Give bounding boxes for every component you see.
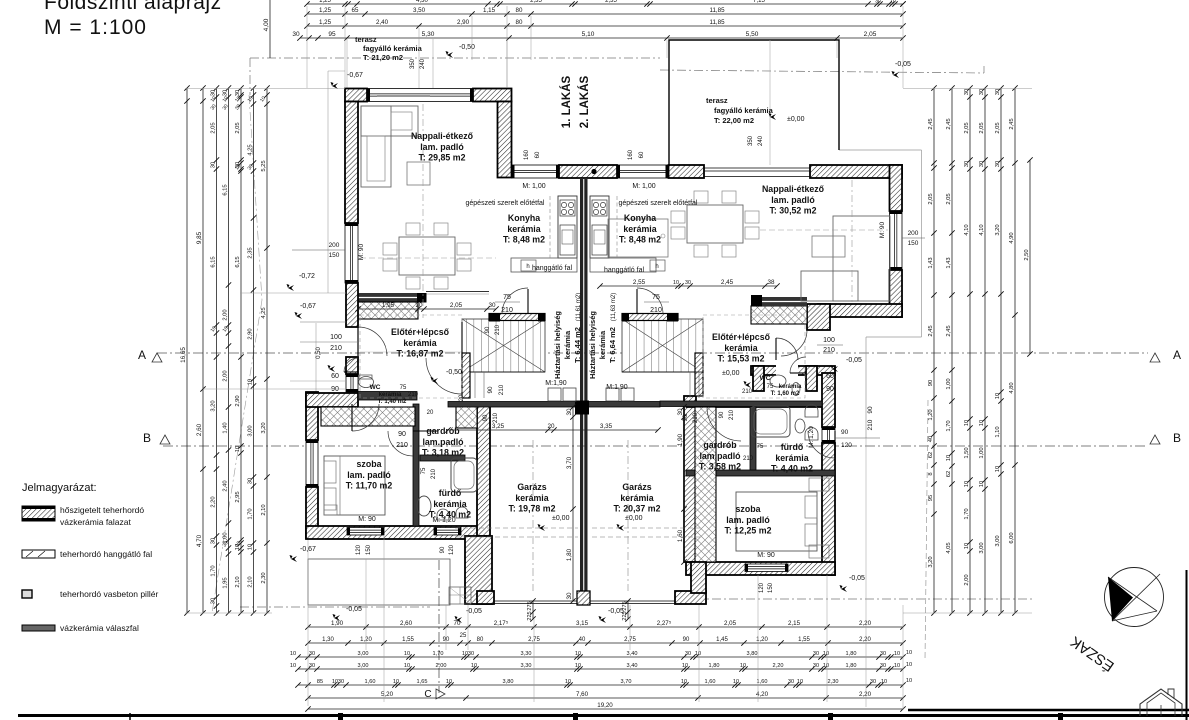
- svg-text:160: 160: [628, 149, 634, 160]
- svg-text:Előtér+lépcső: Előtér+lépcső: [712, 332, 771, 342]
- svg-text:2,45: 2,45: [928, 325, 934, 336]
- svg-text:5,25: 5,25: [261, 160, 267, 171]
- wall U1 garage west upper: [477, 404, 490, 536]
- svg-text:B: B: [143, 431, 151, 445]
- wall right of stairs U2: [695, 353, 703, 396]
- svg-text:10: 10: [894, 651, 900, 657]
- stairs U1 top wall: [489, 314, 545, 321]
- legend item 1 symbol: [22, 506, 55, 521]
- svg-text:20: 20: [427, 410, 434, 416]
- svg-text:1,60: 1,60: [677, 529, 684, 542]
- svg-text:275: 275: [622, 601, 628, 610]
- svg-text:90: 90: [719, 411, 725, 418]
- right dim col 4: [982, 85, 987, 615]
- svg-text:30: 30: [309, 651, 315, 657]
- svg-text:120: 120: [841, 442, 852, 449]
- svg-text:30: 30: [813, 663, 819, 669]
- svg-text:62: 62: [928, 452, 934, 458]
- svg-text:2,00: 2,00: [223, 309, 229, 320]
- svg-text:8: 8: [928, 472, 934, 475]
- north arrow circle: [1105, 568, 1164, 627]
- door U1 living arc: [426, 358, 462, 394]
- svg-text:3,70: 3,70: [566, 456, 573, 469]
- svg-text:fürdő: fürdő: [439, 488, 462, 498]
- svg-text:3,25: 3,25: [492, 423, 505, 430]
- svg-text:60: 60: [826, 373, 834, 380]
- svg-text:210: 210: [431, 468, 437, 479]
- eaves west vertical: [327, 71, 329, 293]
- terrace 2 centerline: [769, 40, 771, 165]
- svg-text:Előtér+lépcső: Előtér+lépcső: [391, 327, 450, 337]
- svg-text:85: 85: [317, 679, 323, 685]
- svg-text:T: 22,00 m2: T: 22,00 m2: [714, 116, 754, 125]
- kitchen counter U2: [590, 196, 609, 258]
- party wall leaf 1: [580, 178, 583, 593]
- svg-text:WC: WC: [370, 384, 381, 391]
- svg-text:T: 6,64 m2: T: 6,64 m2: [608, 327, 617, 363]
- svg-text:10: 10: [906, 662, 912, 668]
- wall U2 east upper: [890, 165, 903, 211]
- svg-text:Konyha: Konyha: [508, 213, 540, 223]
- svg-text:-0,67: -0,67: [300, 303, 316, 310]
- svg-text:1,80: 1,80: [846, 651, 857, 657]
- svg-text:±0,00: ±0,00: [787, 116, 805, 123]
- bathtub U2: [751, 406, 790, 437]
- living1 dash guide vertical: [422, 104, 424, 318]
- door stairs U1 arc: [502, 288, 528, 314]
- level mark u2 elo: [744, 381, 752, 388]
- title block top line right: [908, 709, 1189, 712]
- svg-text:2,60: 2,60: [196, 423, 203, 436]
- svg-text:2,90: 2,90: [248, 328, 254, 339]
- garage 2 door sill: [590, 600, 675, 602]
- svg-text:A: A: [138, 348, 146, 362]
- svg-text:T: 15,53 m2: T: 15,53 m2: [718, 354, 765, 364]
- svg-text:90: 90: [483, 414, 489, 421]
- svg-text:2,45: 2,45: [721, 279, 734, 286]
- svg-text:30: 30: [566, 592, 573, 600]
- svg-text:2,15: 2,15: [788, 620, 801, 627]
- interior dim row U2: [597, 283, 779, 288]
- svg-text:10: 10: [446, 679, 452, 685]
- wall U2 WC west jamb: [753, 366, 764, 391]
- svg-text:3,35: 3,35: [600, 423, 613, 430]
- svg-text:2,00: 2,00: [223, 370, 229, 381]
- svg-text:240: 240: [420, 58, 426, 69]
- svg-text:60: 60: [535, 151, 541, 158]
- tv bench U2: [608, 219, 668, 257]
- level mark garage2: [617, 524, 625, 531]
- svg-text:20: 20: [459, 394, 465, 401]
- svg-text:70: 70: [454, 620, 461, 627]
- window U1 fürdő south: [434, 528, 461, 536]
- svg-text:30: 30: [870, 679, 876, 685]
- svg-text:2,45: 2,45: [1009, 118, 1015, 129]
- svg-text:350: 350: [410, 58, 416, 69]
- wall U2 szoba north: [686, 470, 835, 476]
- eaves line right horizontal: [839, 149, 922, 151]
- svg-text:1,80: 1,80: [709, 663, 720, 669]
- svg-text:3,50: 3,50: [413, 7, 426, 14]
- north arrow head: [1108, 577, 1133, 621]
- wall U1 garage front: [477, 591, 494, 604]
- svg-text:10: 10: [964, 481, 970, 487]
- svg-text:1,25: 1,25: [319, 7, 332, 14]
- svg-text:10: 10: [471, 663, 477, 669]
- svg-text:10: 10: [823, 663, 829, 669]
- svg-text:2,10: 2,10: [248, 576, 254, 587]
- wall U2 WC east jamb: [806, 366, 817, 391]
- svg-text:1,95: 1,95: [382, 302, 395, 309]
- wall garage 2 east: [691, 562, 706, 593]
- svg-text:90: 90: [443, 637, 450, 643]
- svg-text:0,50: 0,50: [316, 347, 322, 359]
- svg-text:M: 90: M: 90: [879, 221, 886, 238]
- svg-text:210: 210: [693, 412, 699, 423]
- svg-text:2,35: 2,35: [605, 0, 617, 4]
- svg-text:40: 40: [579, 637, 586, 643]
- svg-text:Garázs: Garázs: [517, 482, 546, 492]
- svg-text:2. LAKÁS: 2. LAKÁS: [578, 75, 591, 128]
- svg-text:2,35: 2,35: [530, 0, 542, 4]
- svg-text:80: 80: [516, 19, 523, 26]
- svg-text:10: 10: [733, 679, 739, 685]
- svg-text:150: 150: [908, 240, 919, 247]
- svg-text:90: 90: [487, 386, 494, 394]
- svg-text:20: 20: [415, 302, 423, 309]
- svg-text:lam.padló: lam.padló: [422, 437, 464, 447]
- svg-text:6,00: 6,00: [1009, 532, 1015, 543]
- svg-text:gépészeti szerelt előtétfal: gépészeti szerelt előtétfal: [619, 200, 698, 207]
- svg-text:1,45: 1,45: [716, 637, 728, 643]
- svg-text:kerámia: kerámia: [563, 330, 572, 359]
- svg-text:lam. padló: lam. padló: [726, 515, 770, 525]
- svg-text:1,70: 1,70: [211, 565, 217, 576]
- entry steps U1: [449, 587, 471, 604]
- svg-text:Konyha: Konyha: [624, 213, 656, 223]
- bottom extension lines: [307, 540, 309, 706]
- section line C vertical: [438, 560, 440, 693]
- door U2 gardrob arc: [707, 407, 741, 441]
- stairs U1 wall end blocks: [489, 314, 500, 322]
- svg-text:4,00: 4,00: [263, 18, 270, 31]
- svg-text:3,20: 3,20: [261, 422, 267, 433]
- door U2 terrace-living arc: [781, 330, 807, 356]
- svg-text:25: 25: [460, 633, 467, 639]
- svg-text:2,05: 2,05: [946, 193, 952, 204]
- svg-text:10: 10: [995, 393, 1001, 399]
- garage 1 door sill: [494, 600, 579, 602]
- washer U1: [548, 388, 561, 401]
- svg-text:30: 30: [964, 89, 970, 95]
- svg-text:30: 30: [880, 651, 886, 657]
- svg-text:4,90: 4,90: [1009, 232, 1015, 243]
- svg-text:30: 30: [211, 90, 217, 96]
- pillar U2 entry: [751, 295, 762, 306]
- svg-text:6,15: 6,15: [223, 184, 229, 195]
- left dim col 7: [264, 85, 269, 615]
- bottom dim row 5: [295, 682, 905, 687]
- wardrobe U1 bedroom strip: [321, 407, 415, 426]
- svg-text:2,05: 2,05: [928, 193, 934, 204]
- svg-text:4,10: 4,10: [979, 224, 985, 235]
- svg-text:1,43: 1,43: [928, 257, 934, 268]
- svg-text:10: 10: [682, 663, 688, 669]
- svg-text:2,20: 2,20: [211, 496, 217, 507]
- svg-text:(11,63 m2): (11,63 m2): [611, 293, 617, 322]
- svg-text:210: 210: [498, 384, 505, 395]
- svg-text:30: 30: [875, 0, 881, 5]
- wall U2 gardrob-fürdő partition: [750, 405, 756, 470]
- svg-text:225: 225: [622, 611, 628, 620]
- svg-text:30: 30: [488, 302, 496, 309]
- svg-text:19,20: 19,20: [597, 702, 613, 709]
- svg-text:2,05: 2,05: [235, 122, 241, 133]
- svg-text:30: 30: [292, 31, 300, 38]
- stairs U2 lower steps: [622, 371, 703, 373]
- svg-text:6,15: 6,15: [235, 256, 241, 267]
- svg-text:10: 10: [979, 481, 985, 487]
- svg-text:T: 8,48 m2: T: 8,48 m2: [619, 235, 661, 245]
- junction dot back wall: [591, 169, 596, 174]
- svg-text:30: 30: [468, 651, 474, 657]
- basin U2: [795, 419, 805, 433]
- kitchen base U2: [590, 258, 656, 272]
- bed U2: [736, 492, 817, 551]
- svg-text:30: 30: [309, 663, 315, 669]
- svg-text:210: 210: [396, 442, 408, 449]
- porch U1 cross-hatched: [358, 302, 418, 319]
- window U1 szoba west: [306, 440, 318, 487]
- svg-text:30: 30: [223, 90, 229, 96]
- svg-text:4,25: 4,25: [248, 144, 254, 155]
- svg-text:90: 90: [440, 546, 446, 553]
- right dim col 3: [967, 85, 972, 615]
- svg-text:T: 8,48 m2: T: 8,48 m2: [503, 235, 545, 245]
- window U2 szoba south: [745, 564, 788, 572]
- stairs U2 top wall: [622, 314, 678, 321]
- kitchen shaft dashes U2: [616, 196, 618, 258]
- living2 dash guide horizontal: [760, 229, 888, 231]
- svg-text:10: 10: [740, 663, 746, 669]
- svg-text:210: 210: [495, 324, 501, 335]
- svg-text:90: 90: [928, 380, 934, 386]
- svg-text:3,00: 3,00: [358, 663, 369, 669]
- svg-text:20: 20: [547, 423, 555, 430]
- right dim col 5: [998, 85, 1003, 615]
- svg-text:90: 90: [485, 326, 491, 333]
- svg-text:Jelmagyarázat:: Jelmagyarázat:: [22, 482, 97, 494]
- door U1 gardrob arc: [388, 431, 413, 456]
- svg-text:30: 30: [211, 598, 217, 604]
- svg-text:1. LAKÁS: 1. LAKÁS: [560, 75, 573, 128]
- svg-text:2,45: 2,45: [946, 325, 952, 336]
- svg-text:kerámia: kerámia: [403, 338, 436, 348]
- stairs U1 lower steps: [462, 371, 545, 373]
- svg-text:10: 10: [404, 663, 410, 669]
- eaves step vertical: [865, 337, 867, 438]
- svg-text:1,20: 1,20: [360, 637, 372, 643]
- svg-text:95: 95: [928, 495, 934, 501]
- svg-text:210: 210: [493, 412, 499, 423]
- svg-text:-0,67: -0,67: [347, 72, 363, 79]
- hallway wall U2: [660, 401, 822, 407]
- svg-text:T: 4,40 m2: T: 4,40 m2: [771, 464, 813, 474]
- garage 1 centerline: [532, 440, 534, 591]
- svg-text:10: 10: [575, 663, 581, 669]
- wall U2 north-west block: [669, 165, 705, 178]
- svg-text:10: 10: [565, 679, 571, 685]
- svg-text:10: 10: [797, 679, 803, 685]
- fixtures U2 wc wall: [805, 405, 818, 418]
- svg-text:75: 75: [767, 384, 774, 390]
- svg-text:M: 90: M: 90: [757, 552, 775, 559]
- svg-text:2,05: 2,05: [964, 122, 970, 133]
- toilet U1 wc: [359, 377, 374, 388]
- svg-text:5,50: 5,50: [746, 31, 759, 38]
- left connector y293: [240, 292, 346, 294]
- svg-text:2,20: 2,20: [859, 691, 872, 698]
- svg-text:150: 150: [366, 544, 372, 555]
- leader 60-90 U1: [290, 380, 346, 382]
- top dim row 1: [304, 1, 905, 6]
- svg-text:350: 350: [748, 135, 754, 146]
- svg-text:WC: WC: [760, 375, 771, 382]
- svg-text:210: 210: [330, 345, 342, 352]
- svg-text:T: 20,37 m2: T: 20,37 m2: [614, 504, 661, 514]
- section marker B right: [1150, 435, 1160, 444]
- wall U1 bedroom west upper: [306, 392, 318, 440]
- terrain dash-dot line bottom right: [695, 598, 1035, 600]
- svg-text:T: 19,78 m2: T: 19,78 m2: [509, 504, 556, 514]
- svg-text:T: 12,25 m2: T: 12,25 m2: [725, 526, 772, 536]
- svg-text:2,05: 2,05: [864, 31, 877, 38]
- svg-text:-0,05: -0,05: [466, 608, 482, 615]
- interior dim garage2 vert: [681, 404, 686, 564]
- svg-text:teherhordó vasbeton pillér: teherhordó vasbeton pillér: [60, 589, 158, 599]
- north arrow lines: [1112, 574, 1160, 621]
- living2 dash guide vertical: [851, 180, 853, 302]
- svg-text:±0,00: ±0,00: [552, 515, 570, 522]
- svg-text:kerámia: kerámia: [379, 392, 402, 398]
- svg-text:terasz: terasz: [355, 35, 377, 44]
- svg-text:30: 30: [211, 162, 217, 168]
- svg-text:16,65: 16,65: [180, 347, 187, 363]
- svg-text:30: 30: [995, 89, 1001, 95]
- right dim 2,50 label: [1029, 160, 1031, 354]
- svg-text:10: 10: [248, 379, 254, 385]
- svg-text:80: 80: [516, 7, 523, 14]
- svg-text:2,60: 2,60: [400, 620, 413, 627]
- svg-text:62: 62: [946, 471, 952, 477]
- wall U1 bedroom north thick: [306, 393, 358, 407]
- svg-text:2,55: 2,55: [633, 279, 646, 286]
- svg-text:30: 30: [788, 679, 794, 685]
- svg-text:30: 30: [677, 408, 684, 416]
- svg-text:30: 30: [979, 161, 985, 167]
- svg-text:T: 16,87 m2: T: 16,87 m2: [397, 349, 444, 359]
- level mark walkway: [333, 614, 341, 621]
- svg-text:30: 30: [685, 651, 691, 657]
- svg-text:10: 10: [673, 280, 679, 286]
- svg-text:kerámia: kerámia: [779, 384, 802, 390]
- svg-text:3,40: 3,40: [627, 651, 638, 657]
- svg-text:M: 90: M: 90: [358, 516, 376, 523]
- section line A-A: [157, 352, 1148, 354]
- footer border line: [18, 714, 1189, 717]
- svg-text:vázkerámia falazat: vázkerámia falazat: [60, 517, 132, 527]
- svg-text:2,35: 2,35: [248, 247, 254, 258]
- svg-text:teherhordó hanggátló fal: teherhordó hanggátló fal: [60, 549, 152, 559]
- svg-text:10: 10: [894, 663, 900, 669]
- svg-text:2,30: 2,30: [261, 572, 267, 583]
- top dim row 4: [297, 35, 905, 40]
- svg-text:38: 38: [767, 279, 775, 286]
- svg-text:-0,50: -0,50: [446, 369, 462, 376]
- wardrobe U1 gardrob strip: [456, 406, 477, 428]
- eaves line right vertical: [921, 150, 923, 337]
- label 200-150 U1 west: [292, 249, 345, 251]
- top left 4,00 dim: [269, 0, 271, 58]
- svg-text:9,85: 9,85: [196, 231, 203, 244]
- svg-text:4,25: 4,25: [261, 307, 267, 318]
- wardrobe U2 cross strip: [695, 407, 716, 562]
- svg-text:10: 10: [404, 651, 410, 657]
- svg-text:1,90: 1,90: [331, 620, 344, 627]
- left dim col 2: [200, 85, 205, 615]
- left dim col 4: [226, 85, 231, 615]
- house icon: [1140, 689, 1182, 716]
- svg-text:10: 10: [964, 543, 970, 549]
- svg-text:M:1,90: M:1,90: [606, 384, 628, 391]
- bottom dim row 6: [305, 695, 905, 700]
- interior dim g2 front: [625, 598, 630, 621]
- bathtub U1: [451, 458, 477, 492]
- top extension lines: [306, 6, 308, 88]
- svg-text:1,10: 1,10: [995, 426, 1001, 437]
- svg-text:150: 150: [329, 252, 340, 259]
- svg-text:4,05: 4,05: [946, 542, 952, 553]
- svg-text:11,85: 11,85: [709, 7, 725, 14]
- terrace 2 outline: [669, 40, 839, 165]
- svg-text:210: 210: [408, 392, 419, 398]
- toilet U2 wc: [770, 375, 786, 387]
- svg-text:2,95: 2,95: [235, 491, 241, 502]
- svg-text:hanggátló fal: hanggátló fal: [604, 267, 645, 274]
- level mark g2 front: [599, 616, 607, 623]
- interior dim row U1 entry: [355, 306, 498, 311]
- svg-text:10: 10: [575, 651, 581, 657]
- svg-text:7,15: 7,15: [753, 0, 765, 4]
- window kitchen U1: [512, 165, 560, 178]
- svg-text:M: 90: M: 90: [358, 243, 365, 260]
- plot boundary dash sloping: [249, 95, 262, 300]
- level mark -0,67 bottom: [290, 555, 298, 562]
- svg-text:M: 1,20: M: 1,20: [808, 426, 815, 448]
- svg-text:3,30: 3,30: [521, 663, 532, 669]
- level mark u2 wing: [840, 585, 848, 592]
- svg-text:30: 30: [813, 651, 819, 657]
- left dim col 5: [238, 85, 243, 615]
- svg-text:4,30: 4,30: [416, 0, 428, 4]
- legend item 4 symbol: [22, 625, 55, 631]
- wall U1 bedroom south: [306, 526, 481, 539]
- terrace 1 extension lines: [346, 39, 348, 88]
- svg-text:A: A: [1173, 348, 1181, 362]
- wall U2 living south: [818, 304, 903, 317]
- svg-text:hőszigetelt teherhordó: hőszigetelt teherhordó: [60, 505, 144, 515]
- svg-text:gardrób: gardrób: [703, 440, 737, 450]
